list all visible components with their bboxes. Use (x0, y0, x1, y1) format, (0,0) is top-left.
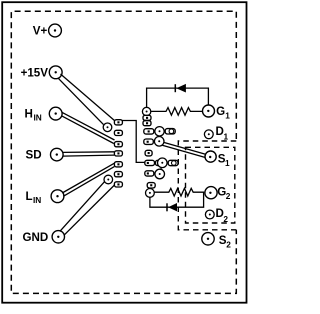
svg-text:H: H (25, 108, 33, 121)
MOSFET Q1 outline (dashed) (178, 141, 236, 230)
resistor R1 (151, 108, 203, 116)
svg-text:GND: GND (23, 231, 49, 244)
svg-text:2: 2 (226, 240, 231, 250)
wire LIN to pad (62, 163, 114, 196)
diode D1 (175, 84, 186, 93)
G2 resistor pad (146, 189, 155, 198)
terminal +15V (node +15V) (21, 66, 63, 79)
diode D2 (167, 203, 177, 211)
terminal G1 (node G1) (203, 105, 231, 121)
pad row E (144, 137, 164, 147)
pad F (145, 150, 152, 156)
svg-text:SD: SD (26, 148, 42, 161)
terminal LIN (node LIN) (26, 190, 64, 205)
resistor R2 (154, 188, 204, 196)
terminal V+ (node V+) (33, 24, 62, 38)
pad row D (144, 127, 175, 136)
terminal SD (node SD) (26, 148, 64, 161)
terminal D2 (node D2) (205, 207, 228, 224)
test point pad upper-left (103, 123, 112, 132)
wire loop for diode D2 (150, 192, 204, 207)
G1 resistor pad (142, 107, 150, 115)
MOSFET Q2 outline (dashed) (186, 147, 235, 223)
board outline (dashed) (11, 11, 236, 293)
pad I (147, 183, 155, 188)
test point pad lower-left (104, 175, 113, 184)
bus wire from +15V pad to right cluster (114, 121, 145, 163)
pad row G (145, 158, 178, 168)
pad B (143, 115, 151, 120)
svg-text:1: 1 (224, 131, 229, 141)
wire loop for diode D1 (147, 88, 209, 107)
ground terminal GND (23, 231, 65, 245)
pad C (143, 121, 151, 126)
svg-text:L: L (26, 190, 33, 203)
terminal S2 (node S2) (202, 233, 231, 250)
wire HIN to pad (61, 112, 114, 143)
pad row H (145, 169, 165, 179)
terminal D1 (node D1) (204, 125, 228, 141)
svg-text:IN: IN (33, 195, 41, 205)
svg-text:1: 1 (225, 111, 230, 121)
terminal G2 (node G2) (205, 185, 231, 201)
terminal S1 (node S1) (205, 151, 230, 168)
IC pad column left (pins 1-7) (114, 120, 122, 187)
svg-text:IN: IN (34, 113, 42, 123)
wire to S1 terminal (162, 142, 205, 157)
svg-text:V+: V+ (33, 25, 48, 38)
svg-text:G: G (216, 105, 225, 118)
connector between G and H circles (160, 167, 162, 169)
wire GND to pads (60, 182, 115, 235)
terminal HIN (node HIN) (25, 107, 63, 122)
svg-text:2: 2 (226, 191, 231, 201)
wire +15V to pads (58, 74, 114, 125)
wire SD to pad (63, 152, 114, 156)
svg-text:1: 1 (225, 158, 230, 168)
svg-text:2: 2 (223, 214, 228, 224)
svg-text:+15V: +15V (21, 66, 49, 79)
